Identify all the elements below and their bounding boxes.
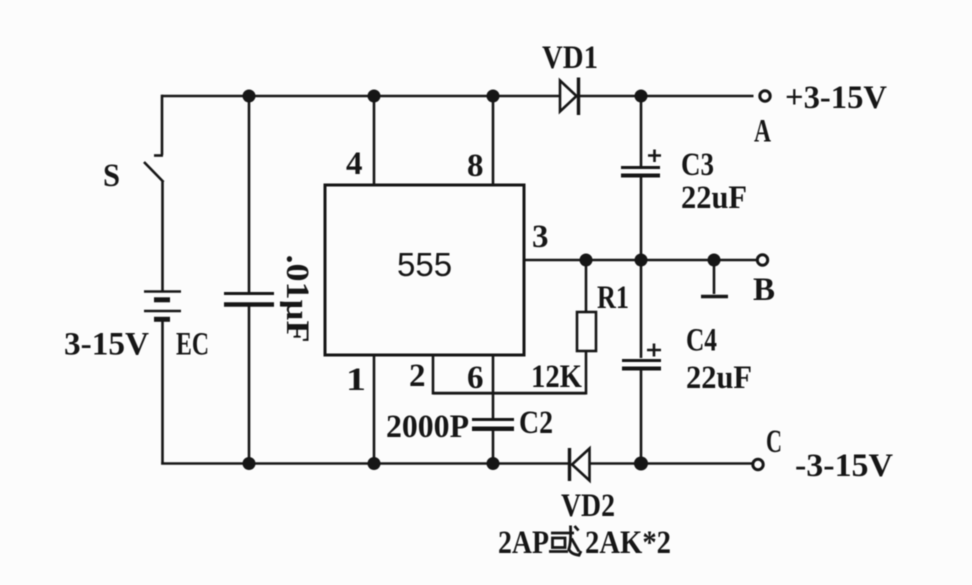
node junction pin3 rail at R1 [580,254,593,267]
capacitor C2 plate bottom [472,427,514,432]
diode VD2 triangle [572,449,590,481]
svg-text:R1: R1 [597,280,629,316]
battery EC plate 2 short thick [154,297,170,302]
svg-text:6: 6 [467,360,484,396]
svg-text:.01µF: .01µF [279,255,315,343]
wire switch to battery [161,181,164,291]
battery EC plate 4 short thick [154,317,170,322]
battery EC plate 3 long [144,310,181,313]
svg-text:-3-15V: -3-15V [795,448,893,484]
capacitor C2 plate top [472,418,514,421]
terminal B circle [757,255,767,265]
glyph huo CJK drawn [549,526,581,556]
wire top rail right segment [580,95,754,98]
svg-text:8: 8 [467,148,484,184]
wire pin8 [492,96,495,185]
svg-text:C: C [766,424,782,460]
svg-text:555: 555 [397,246,452,283]
capacitor C3 plate top [621,166,660,169]
wire link R1 to pin2 [433,392,586,395]
capacitor C1 plate bottom [224,302,274,307]
svg-text:C3: C3 [681,147,714,183]
svg-text:VD1: VD1 [542,40,598,76]
capacitor C3 plus sign [648,150,661,163]
wire pin2 [432,355,435,395]
wire top rail left segment [162,95,560,98]
svg-text:VD2: VD2 [561,488,615,524]
wire R1 top lead [585,260,588,312]
svg-text:3: 3 [532,219,549,255]
svg-text:4: 4 [346,146,363,182]
svg-text:2: 2 [409,358,426,394]
diode VD2 cathode bar [568,448,571,481]
svg-text:1: 1 [346,362,366,398]
resistor R1 body [577,312,596,351]
capacitor C1 plate top [224,292,274,295]
diode VD1 triangle [560,81,577,112]
wire bottom rail right segment [590,462,752,465]
wire C4 branch upper [640,260,643,358]
wire pin3 output rail [524,259,756,262]
terminal C circle [753,459,763,469]
wire bottom rail left segment [161,462,568,465]
diode VD1 cathode bar [577,78,580,116]
svg-text:22uF: 22uF [686,360,752,396]
svg-text:2AK*2: 2AK*2 [585,525,671,561]
wire capacitor C1 branch lower [248,307,251,464]
svg-text:3-15V: 3-15V [64,327,149,363]
svg-text:C4: C4 [686,323,717,359]
svg-text:S: S [103,158,120,194]
node junction top rail at C3 [635,90,648,103]
node junction top rail at pin4 [368,90,381,103]
node junction pin3 rail at C4 [635,254,648,267]
wire capacitor C1 branch upper [248,96,251,292]
capacitor C4 plus sign [647,344,661,357]
node junction bottom rail at VD2 [634,457,648,471]
capacitor C4 plate bottom [622,367,661,371]
wire battery to bottom rail [161,322,164,465]
wire pin6 lower [492,431,495,464]
wire R1 bottom lead [585,351,588,395]
wire pin1 [373,355,376,464]
svg-text:12K: 12K [531,359,582,395]
node B stub wire [713,260,716,294]
svg-text:2000P: 2000P [386,409,469,445]
wire pin4 [373,96,376,185]
svg-text:EC: EC [176,327,209,363]
switch S upper contact tick [154,154,163,157]
wire C3 branch lower [640,178,643,261]
terminal A circle [760,91,770,101]
wire left vertical upper (to switch) [161,95,164,155]
svg-text:C2: C2 [519,405,553,441]
node junction top rail at C1 [243,90,256,103]
op-amp U1 555 box [325,185,524,355]
wire pin6 upper [492,355,495,418]
node junction pin3 rail at B stub [708,254,721,267]
svg-text:+3-15V: +3-15V [785,80,887,116]
node junction top rail at pin8 [487,90,500,103]
battery EC plate 1 long [144,290,181,293]
capacitor C3 plate bottom [621,174,660,178]
switch S blade [144,162,164,182]
wire C3 branch upper [640,96,643,166]
svg-text:22uF: 22uF [681,180,747,216]
svg-text:B: B [753,272,775,308]
svg-text:2AP: 2AP [498,525,549,561]
wire C4 branch lower [640,371,643,464]
node junction bottom rail at C1 [243,457,256,470]
capacitor C4 plate top [622,359,661,362]
node junction bottom rail at pin6 [487,457,500,470]
svg-text:A: A [754,114,771,150]
node B bar [701,295,728,299]
node junction bottom rail at pin1 [368,457,381,470]
